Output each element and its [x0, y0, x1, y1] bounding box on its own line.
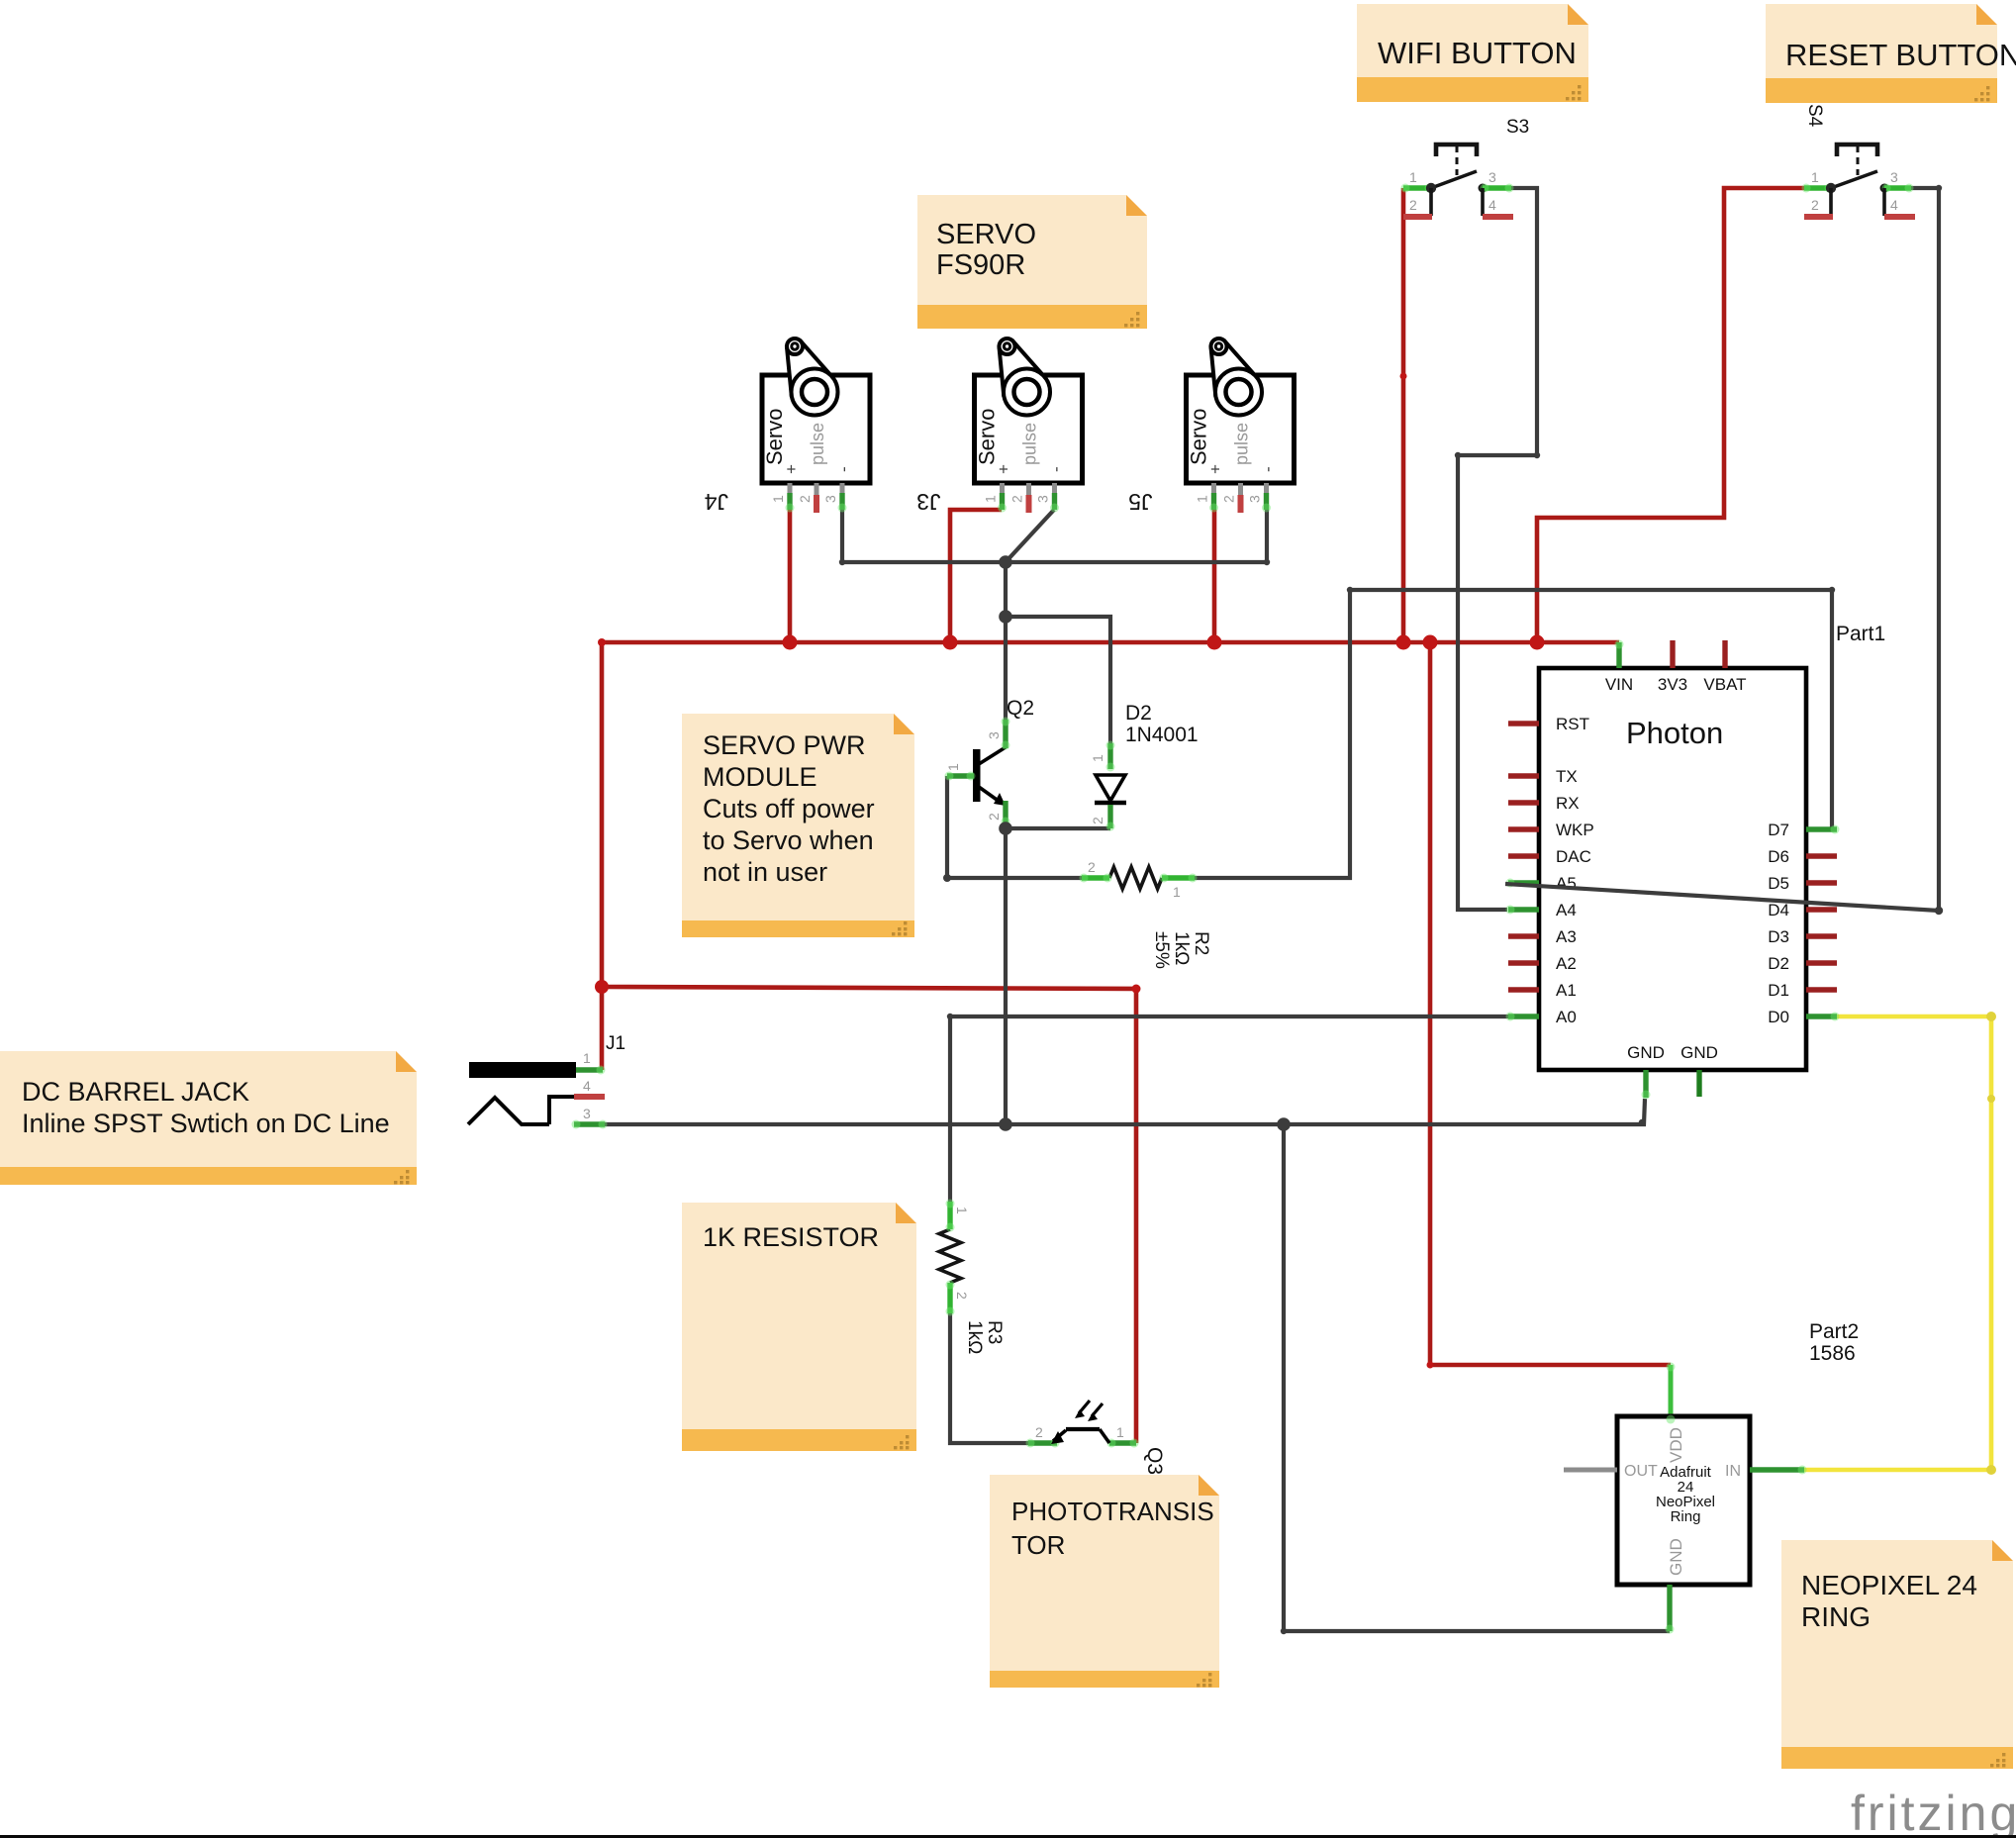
bend yellow wire mid [1987, 1095, 1995, 1103]
wire dark R2 to Photon D7 [1195, 590, 1832, 878]
bend yellow wire bottom corner [1986, 1465, 1996, 1475]
note NEOPIXEL 24 RING [1781, 1540, 2013, 1769]
svg-text:D7: D7 [1768, 821, 1789, 839]
svg-text:SERVO PWR: SERVO PWR [703, 730, 866, 760]
svg-text:Part1: Part1 [1836, 623, 1885, 645]
svg-text:2: 2 [1409, 197, 1417, 213]
note SERVO PWR MODULE [682, 714, 914, 937]
svg-text:Part2: Part2 [1809, 1320, 1859, 1343]
svg-text:1: 1 [1116, 1424, 1124, 1440]
junction J1 branch [595, 980, 609, 994]
svg-text:Servo: Servo [975, 409, 1000, 465]
junction bus J4 plus [783, 635, 798, 650]
svg-text:J4: J4 [705, 489, 729, 515]
dc barrel jack J1 [468, 1033, 625, 1129]
svg-text:1: 1 [1811, 169, 1819, 185]
svg-text:WKP: WKP [1556, 821, 1594, 839]
bend S3 pin3 wire corner [1534, 452, 1540, 458]
junction bus S4 [1530, 635, 1545, 650]
microcontroller Photon Part1 [1506, 623, 1886, 1100]
resistor R3 1k [939, 1200, 1005, 1355]
servo J4 [705, 339, 871, 515]
wire dark S4 pin3 down [1911, 188, 1939, 911]
svg-text:3: 3 [1488, 169, 1496, 185]
svg-text:A0: A0 [1556, 1008, 1577, 1026]
junction bus J5 plus [1207, 635, 1222, 650]
junction collector node [999, 610, 1012, 624]
svg-text:Servo: Servo [1187, 409, 1211, 465]
svg-text:GND: GND [1667, 1538, 1685, 1576]
svg-text:+: + [995, 464, 1013, 474]
svg-text:GND: GND [1680, 1043, 1718, 1062]
svg-text:DAC: DAC [1556, 847, 1591, 866]
svg-text:RX: RX [1556, 794, 1580, 813]
wire yellow Photon D0 to NeoPixel IN [1804, 1016, 1991, 1470]
wire red S3 pin1 to bus [1401, 188, 1406, 642]
svg-text:pulse: pulse [1232, 423, 1252, 465]
svg-text:OUT: OUT [1624, 1463, 1658, 1480]
svg-text:NEOPIXEL 24: NEOPIXEL 24 [1801, 1570, 1977, 1600]
svg-text:Q3: Q3 [1143, 1447, 1166, 1475]
diode D2 1N4001 [1090, 702, 1199, 831]
svg-text:2: 2 [1221, 495, 1237, 503]
svg-text:SERVO: SERVO [936, 219, 1036, 250]
phototransistor Q3 [1026, 1401, 1167, 1475]
svg-text:J1: J1 [606, 1033, 625, 1054]
wire dark servo minus bus [842, 510, 1267, 562]
svg-text:4: 4 [1488, 197, 1496, 213]
svg-text:D0: D0 [1768, 1008, 1789, 1026]
svg-text:1: 1 [983, 495, 999, 503]
svg-text:4: 4 [1890, 197, 1898, 213]
svg-text:Photon: Photon [1626, 716, 1723, 750]
svg-text:MODULE: MODULE [703, 762, 817, 792]
servo J3 [916, 339, 1082, 515]
svg-text:VDD: VDD [1667, 1427, 1685, 1463]
svg-text:PHOTOTRANSIS: PHOTOTRANSIS [1011, 1497, 1214, 1526]
svg-text:RESET BUTTON: RESET BUTTON [1785, 38, 2016, 72]
wire dark Q2 emitter to D2 cathode [1006, 826, 1110, 830]
junction bus NeoPixel VDD feed [1423, 635, 1438, 650]
endpoint A5 diagonal [1935, 907, 1943, 915]
svg-text:A1: A1 [1556, 981, 1577, 1000]
svg-text:D3: D3 [1768, 927, 1789, 946]
wire red S4 pin1 to bus [1537, 188, 1804, 642]
bend base wire corner [943, 874, 951, 882]
wire dark J3 minus diagonal [1006, 510, 1054, 562]
svg-text:3V3: 3V3 [1658, 675, 1687, 694]
svg-text:2: 2 [1009, 495, 1025, 503]
svg-text:D2: D2 [1125, 702, 1152, 725]
svg-text:2: 2 [1035, 1424, 1043, 1440]
svg-text:2: 2 [954, 1292, 970, 1300]
svg-text:2: 2 [986, 813, 1002, 821]
svg-text:Ring: Ring [1671, 1508, 1701, 1525]
svg-text:A2: A2 [1556, 954, 1577, 973]
svg-text:3: 3 [1890, 169, 1898, 185]
svg-text:pulse: pulse [1020, 423, 1040, 465]
junction emitter node [999, 822, 1012, 835]
bend servo minus right corner [1264, 559, 1270, 565]
wire dark S3 pin3 to Photon A4 [1458, 188, 1537, 910]
svg-text:S3: S3 [1506, 117, 1529, 138]
svg-text:1: 1 [770, 495, 786, 503]
svg-text:Q2: Q2 [1007, 697, 1034, 720]
svg-text:TX: TX [1556, 767, 1578, 786]
servo J5 [1128, 339, 1294, 515]
wire dark diagonal Photon A5 to S4 [1505, 884, 1939, 911]
bend D7 wire left corner [1347, 587, 1353, 593]
bend D7 wire right corner [1829, 587, 1835, 593]
svg-text:1N4001: 1N4001 [1125, 724, 1199, 746]
svg-text:4: 4 [583, 1078, 591, 1094]
svg-text:2: 2 [1088, 859, 1096, 875]
svg-text:Cuts off power: Cuts off power [703, 794, 875, 823]
svg-text:pulse: pulse [808, 423, 827, 465]
note DC BARREL JACK [0, 1051, 417, 1185]
svg-text:D5: D5 [1768, 874, 1789, 893]
wire red power bus [602, 640, 1619, 645]
svg-text:3: 3 [1247, 495, 1263, 503]
resistor R2 1k [1080, 859, 1212, 969]
junction ground to NeoPixel [1277, 1117, 1291, 1131]
svg-text:-: - [1047, 466, 1066, 472]
wire dark Q2 emitter to ground line [1004, 828, 1008, 1124]
svg-text:A4: A4 [1556, 901, 1577, 919]
wire dark to Q2 collector [1004, 617, 1008, 722]
svg-text:Inline SPST Swtich on DC Line: Inline SPST Swtich on DC Line [22, 1109, 390, 1138]
wire red J4 plus to bus [788, 510, 793, 642]
svg-text:3: 3 [822, 495, 838, 503]
svg-text:1: 1 [954, 1207, 970, 1214]
svg-text:VIN: VIN [1605, 675, 1633, 694]
bend NeoPixel ground corner [1281, 1628, 1287, 1634]
svg-text:Servo: Servo [762, 409, 787, 465]
wire red J1 branch to Q3 collector [602, 987, 1136, 1443]
wire green NeoPixel VDD drop [1669, 1365, 1674, 1419]
wire dark A0 net [950, 1016, 1508, 1202]
bend servo minus left corner [839, 559, 845, 565]
svg-text:RING: RING [1801, 1601, 1871, 1632]
svg-text:-: - [1259, 466, 1278, 472]
svg-text:+: + [1206, 464, 1225, 474]
bend yellow wire top corner [1986, 1012, 1996, 1021]
wire red J5 plus to bus [1212, 510, 1217, 642]
endpoint ground line right [1639, 1119, 1645, 1125]
wire dark Q2 base to R2 [947, 776, 1082, 878]
bend S3 red wire [1400, 373, 1407, 380]
svg-text:-: - [834, 466, 853, 472]
svg-text:D1: D1 [1768, 981, 1789, 1000]
wire dark ground line J1 pin3 to Photon GND [605, 1099, 1645, 1124]
svg-text:1K RESISTOR: 1K RESISTOR [703, 1222, 879, 1252]
junction ground at emitter drop [999, 1117, 1012, 1131]
svg-text:J5: J5 [1128, 489, 1152, 515]
svg-text:to Servo when: to Servo when [703, 825, 874, 855]
svg-text:WIFI BUTTON: WIFI BUTTON [1378, 36, 1577, 70]
pushbutton S3 [1401, 117, 1530, 217]
bend bus left corner [598, 638, 606, 646]
junction servo minus node [999, 555, 1012, 569]
wire dark ground line to NeoPixel GND [1284, 1124, 1670, 1631]
bend S4 pin3 wire corner [1936, 185, 1942, 191]
wire red bus to NeoPixel VDD [1430, 642, 1671, 1365]
svg-text:2: 2 [1090, 817, 1105, 824]
note WIFI BUTTON [1357, 4, 1588, 102]
svg-text:A3: A3 [1556, 927, 1577, 946]
junction bus S3 [1396, 635, 1411, 650]
wire dark R3 to Q3 emitter [950, 1313, 1028, 1443]
pushbutton S4 [1802, 104, 1916, 217]
svg-text:not in user: not in user [703, 857, 827, 887]
svg-text:2: 2 [1811, 197, 1819, 213]
wire red J3 plus to bus [950, 510, 1002, 642]
note RESET BUTTON [1766, 4, 2016, 103]
svg-text:3: 3 [1035, 495, 1051, 503]
bend Q3 feed corner [1132, 985, 1141, 994]
svg-text:1: 1 [945, 763, 961, 771]
svg-text:GND: GND [1627, 1043, 1665, 1062]
note PHOTOTRANSISTOR [990, 1475, 1219, 1688]
bend NeoPixel VDD red corner [1427, 1362, 1434, 1369]
svg-text:S4: S4 [1804, 104, 1825, 128]
svg-text:2: 2 [797, 495, 813, 503]
note 1K RESISTOR [682, 1203, 916, 1451]
svg-text:RST: RST [1556, 715, 1589, 733]
svg-text:3: 3 [583, 1106, 591, 1121]
bend A0 wire corner [947, 1014, 953, 1019]
wire dark node to node [1004, 562, 1008, 617]
svg-text:IN: IN [1725, 1463, 1741, 1480]
svg-text:1: 1 [1195, 495, 1210, 503]
svg-text:1: 1 [1173, 884, 1181, 900]
svg-text:D6: D6 [1768, 847, 1789, 866]
svg-text:D4: D4 [1768, 901, 1789, 919]
neopixel ring Part2 [1564, 1320, 1859, 1634]
svg-text:1: 1 [1090, 754, 1105, 762]
svg-text:DC BARREL JACK: DC BARREL JACK [22, 1077, 249, 1107]
svg-text:FS90R: FS90R [936, 249, 1025, 281]
junction bus J3 plus [943, 635, 958, 650]
svg-text:+: + [782, 464, 801, 474]
bottom window border [0, 1835, 2016, 1838]
transistor Q2 [945, 697, 1035, 826]
svg-text:1: 1 [1409, 169, 1417, 185]
svg-text:fritzing: fritzing [1851, 1786, 2016, 1838]
svg-text:TOR: TOR [1011, 1530, 1065, 1560]
bend A4 wire corner [1455, 452, 1461, 458]
svg-text:D2: D2 [1768, 954, 1789, 973]
svg-text:3: 3 [986, 731, 1002, 739]
svg-text:VBAT: VBAT [1703, 675, 1746, 694]
wire red bus to J1 pin1 [600, 642, 605, 1070]
svg-text:1: 1 [583, 1050, 591, 1066]
svg-text:J3: J3 [916, 489, 940, 515]
wire dark to D2 anode [1006, 617, 1110, 745]
note SERVO FS90R [917, 195, 1147, 329]
svg-text:1586: 1586 [1809, 1342, 1856, 1365]
